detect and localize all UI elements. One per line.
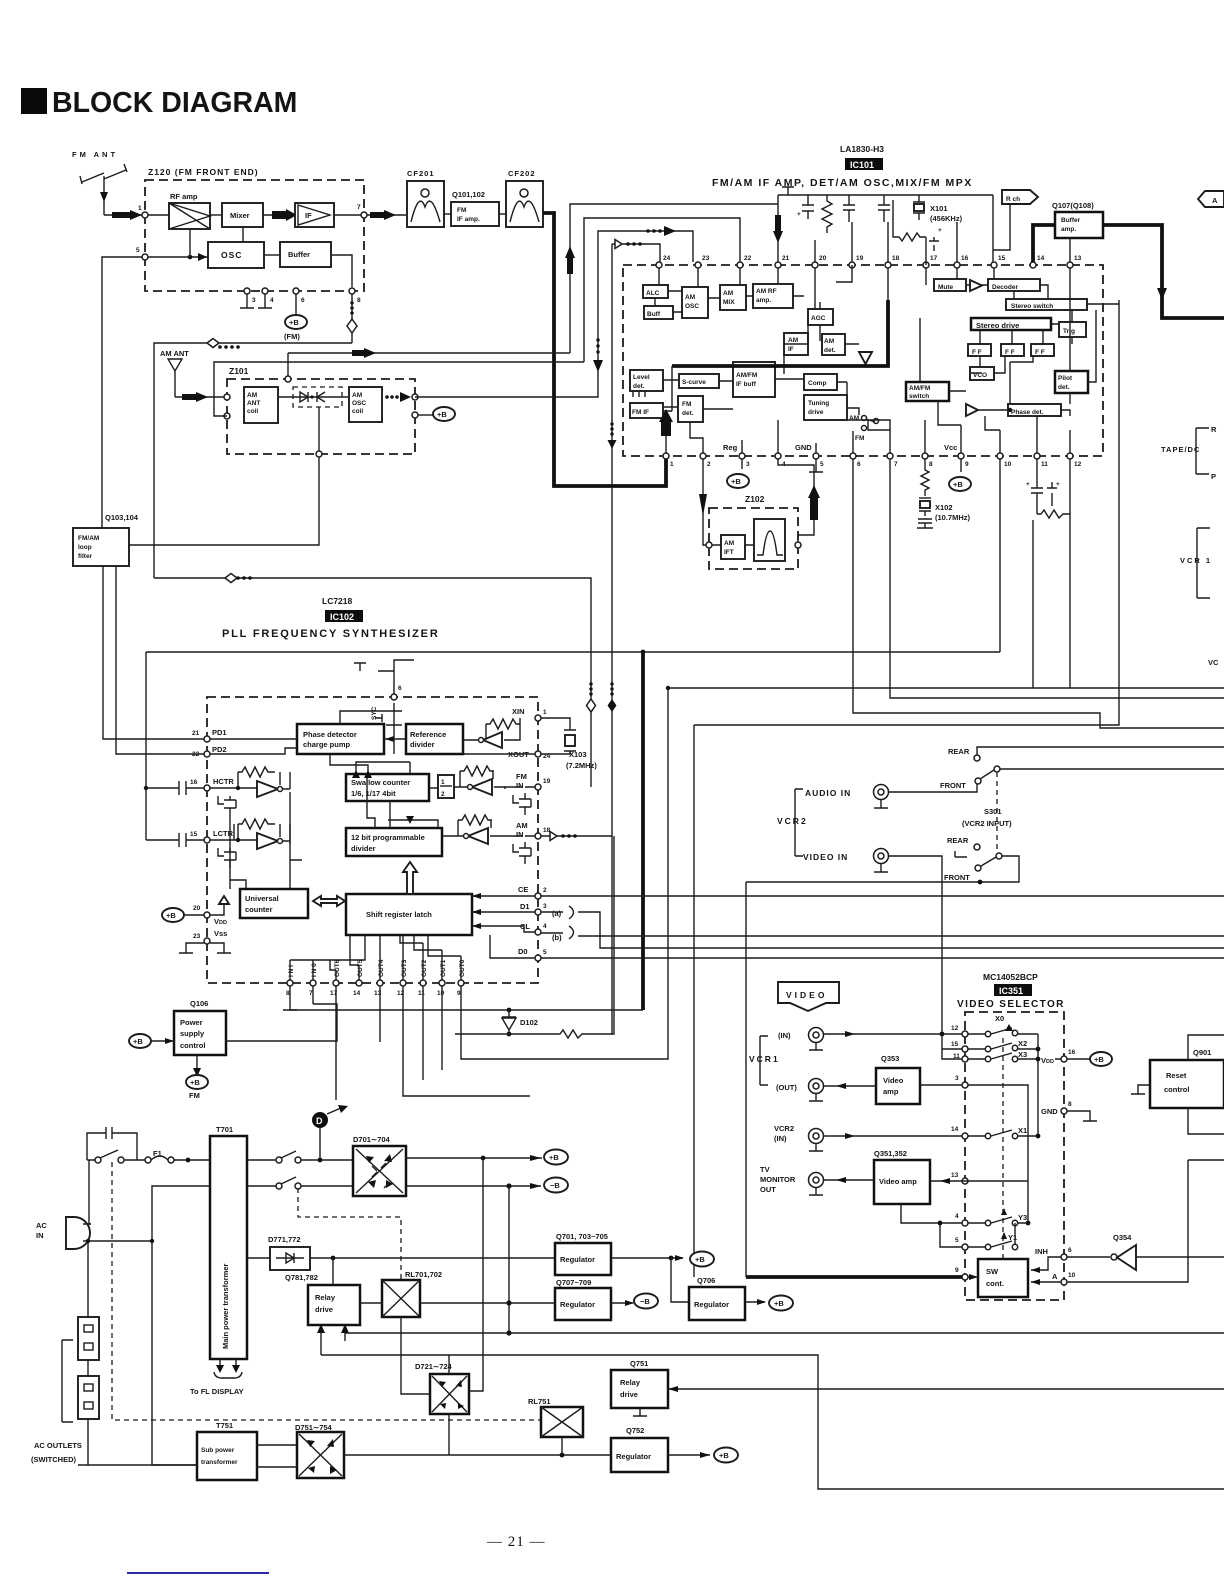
- svg-text:+: +: [1056, 481, 1060, 488]
- HCTR mosfet: [218, 796, 236, 816]
- mixer: [222, 203, 263, 227]
- svg-text:+: +: [1026, 481, 1030, 488]
- svg-text:6: 6: [1068, 1247, 1072, 1254]
- wire Z120 pin5 to loop filter: [102, 257, 142, 528]
- svg-text:X1: X1: [1018, 1126, 1027, 1135]
- svg-text:LC7218: LC7218: [322, 596, 353, 606]
- +B out of Q706: [745, 1301, 765, 1303]
- X0 switch: [968, 1014, 1038, 1037]
- svg-text:AM: AM: [352, 392, 362, 399]
- svg-text:MONITOR: MONITOR: [760, 1175, 796, 1184]
- pin12 wire down to bus: [1033, 459, 1070, 688]
- svg-text:AM ANT: AM ANT: [160, 349, 189, 358]
- wire buffer out to pin8: [331, 255, 352, 287]
- Vss pin23 with grounds: [204, 938, 210, 944]
- wire mixer to IF with arrow: [263, 214, 295, 216]
- svg-text:Reset: Reset: [1166, 1071, 1187, 1080]
- thick FM IF bus: [672, 300, 888, 366]
- Decoder: [988, 279, 1040, 291]
- IC351 dashed outline: [965, 1012, 1064, 1300]
- svg-text:IN: IN: [516, 781, 524, 790]
- pin11: [962, 1056, 968, 1062]
- svg-text:X2: X2: [1018, 1039, 1027, 1048]
- 12bit programmable divider: [346, 828, 442, 856]
- svg-text:VIDEO SELECTOR: VIDEO SELECTOR: [957, 999, 1065, 1010]
- svg-text:F F: F F: [972, 349, 982, 356]
- svg-text:VIDEO: VIDEO: [786, 990, 827, 1000]
- svg-text:Universal: Universal: [245, 894, 279, 903]
- svg-text:9: 9: [955, 1267, 959, 1274]
- CF201 ceramic filter: [407, 169, 444, 227]
- AC power switch: [87, 1150, 145, 1163]
- svg-text:IF amp.: IF amp.: [457, 216, 480, 223]
- svg-text:drive: drive: [808, 409, 824, 416]
- AM OSC coil: [349, 387, 382, 422]
- CE bus line: [541, 895, 1224, 897]
- OUT0 route: [461, 688, 668, 1059]
- audio REAR terminal: [948, 747, 1224, 761]
- svg-text:Relay: Relay: [315, 1293, 336, 1302]
- svg-text:16: 16: [1068, 1049, 1076, 1056]
- svg-text:8: 8: [357, 297, 361, 304]
- decorative blue rule: [127, 1572, 269, 1574]
- AM IN pin18: [535, 833, 541, 839]
- svg-text:VC: VC: [1208, 658, 1219, 667]
- svg-text:AGC: AGC: [811, 315, 826, 322]
- svg-text:6: 6: [301, 297, 305, 304]
- svg-text:ANT: ANT: [247, 400, 260, 407]
- svg-text:OUT6: OUT6: [334, 959, 341, 977]
- svg-text:VIDEO IN: VIDEO IN: [803, 852, 848, 862]
- D0 bus line: [541, 957, 1224, 959]
- svg-text:Video: Video: [883, 1076, 904, 1085]
- X2 switch: [968, 1039, 1038, 1052]
- +B VDD pin20: [162, 908, 204, 922]
- RL701 702 relay: [382, 1270, 442, 1317]
- svg-text:3: 3: [543, 903, 547, 910]
- svg-text:counter: counter: [245, 905, 273, 914]
- XIN inverter resistor: [463, 718, 535, 754]
- R ch flag: [993, 190, 1038, 250]
- video FRONT contact and switch: [746, 853, 1019, 884]
- svg-text:+B: +B: [731, 477, 741, 486]
- svg-text:+B: +B: [695, 1255, 705, 1264]
- svg-text:11: 11: [418, 990, 425, 997]
- -B rail down thick: [508, 1186, 510, 1333]
- VCR1 IN jack: [778, 1028, 965, 1051]
- +B (FM) supply: [284, 294, 307, 341]
- pin5: [962, 1244, 968, 1250]
- svg-text:Regulator: Regulator: [560, 1255, 595, 1264]
- svg-text:−B: −B: [640, 1297, 650, 1306]
- Q354 inverter: [1067, 1233, 1224, 1270]
- AC IN plug: [36, 1217, 91, 1249]
- svg-text:4: 4: [955, 1213, 959, 1220]
- top pin row IC101: [656, 255, 1082, 268]
- svg-text:Mixer: Mixer: [230, 211, 250, 220]
- AM det: [822, 334, 845, 355]
- svg-text:Phase detector: Phase detector: [303, 730, 357, 739]
- bridge +B output: [406, 1157, 542, 1159]
- svg-text:FM: FM: [189, 1091, 200, 1100]
- svg-text:10: 10: [1068, 1272, 1076, 1279]
- svg-text:OUT5: OUT5: [357, 959, 364, 977]
- AM IN inverter: [442, 815, 505, 844]
- svg-text:cont.: cont.: [986, 1279, 1004, 1288]
- svg-text:A: A: [1052, 1272, 1058, 1281]
- svg-text:REAR: REAR: [947, 836, 969, 845]
- svg-text:11: 11: [1041, 461, 1048, 468]
- Z101 dashed box: [227, 379, 415, 454]
- svg-text:Q707~709: Q707~709: [556, 1278, 591, 1287]
- FM det: [678, 396, 703, 422]
- svg-text:BLOCK DIAGRAM: BLOCK DIAGRAM: [52, 87, 297, 119]
- svg-text:T751: T751: [216, 1421, 233, 1430]
- Z102 dashed box: [709, 508, 798, 569]
- svg-text:T701: T701: [216, 1125, 233, 1134]
- svg-text:Buff: Buff: [647, 311, 661, 318]
- AM det down triangle: [859, 352, 872, 364]
- X1 switch: [968, 1126, 1040, 1139]
- wire pin8 net to left rail: [154, 343, 352, 578]
- svg-text:AM: AM: [849, 415, 859, 422]
- svg-text:CF202: CF202: [508, 169, 536, 178]
- svg-text:Pilot: Pilot: [1058, 375, 1073, 382]
- OUT lines down: [313, 986, 530, 1100]
- svg-text:13: 13: [951, 1172, 959, 1179]
- svg-text:22: 22: [744, 255, 752, 262]
- svg-text:GND: GND: [795, 443, 812, 452]
- pin13 stub: [1069, 238, 1071, 262]
- svg-text:12: 12: [951, 1025, 959, 1032]
- svg-text:Video amp: Video amp: [879, 1177, 917, 1186]
- svg-text:charge pump: charge pump: [303, 740, 351, 749]
- svg-text:filter: filter: [78, 553, 93, 560]
- A flag right edge: [1198, 191, 1224, 207]
- S301 label: [962, 807, 1012, 828]
- Q901 reset control: [1150, 1048, 1224, 1108]
- svg-text:D751∼754: D751∼754: [295, 1423, 333, 1432]
- svg-text:4: 4: [270, 297, 274, 304]
- svg-text:amp.: amp.: [1061, 226, 1076, 233]
- dashed standby feed: [112, 1162, 541, 1420]
- svg-text:divider: divider: [351, 844, 376, 853]
- svg-text:+B: +B: [289, 318, 299, 327]
- Q706 regulator: [689, 1276, 745, 1320]
- svg-text:+B: +B: [774, 1299, 784, 1308]
- svg-text:Sub power: Sub power: [201, 1447, 235, 1454]
- AM IFT: [721, 535, 745, 559]
- pin3: [962, 1082, 968, 1088]
- svg-text:20: 20: [819, 255, 827, 262]
- svg-text:RL701,702: RL701,702: [405, 1270, 442, 1279]
- svg-text:INH: INH: [1035, 1247, 1048, 1256]
- universal counter: [240, 889, 308, 918]
- svg-text:IN: IN: [36, 1231, 44, 1240]
- svg-text:det.: det.: [633, 383, 645, 390]
- svg-text:HCTR: HCTR: [213, 777, 234, 786]
- svg-text:+B: +B: [437, 410, 447, 419]
- svg-text:supply: supply: [180, 1029, 205, 1038]
- svg-text:GND: GND: [1041, 1107, 1058, 1116]
- Buff: [644, 306, 673, 319]
- pin9: [962, 1274, 968, 1280]
- svg-text:OUT2: OUT2: [421, 959, 428, 977]
- long line pin10 to PLL area: [999, 459, 1001, 652]
- AM ANT coil: [244, 387, 278, 423]
- AM IN wire to LO rail: [541, 835, 612, 837]
- A pin10: [1031, 1272, 1076, 1285]
- Pilot det: [1055, 371, 1088, 393]
- svg-text:OUT: OUT: [760, 1185, 776, 1194]
- CL pin4: [535, 929, 541, 935]
- Z101 right pins: [412, 394, 418, 400]
- title block: [21, 87, 297, 119]
- svg-text:S-curve: S-curve: [682, 379, 706, 386]
- svg-text:(VCR2 INPUT): (VCR2 INPUT): [962, 819, 1012, 828]
- svg-text:Level: Level: [633, 374, 650, 381]
- svg-text:(IN): (IN): [778, 1031, 791, 1040]
- svg-text:3: 3: [746, 461, 750, 468]
- AC outlet 2: [78, 1376, 99, 1419]
- svg-text:AC OUTLETS: AC OUTLETS: [34, 1441, 82, 1450]
- IC101 internal: ALC: [643, 285, 668, 298]
- D751 output line: [344, 1454, 614, 1456]
- svg-text:D1: D1: [520, 902, 530, 911]
- svg-text:Q103,104: Q103,104: [105, 513, 139, 522]
- GND pin8: [1041, 1101, 1097, 1121]
- Q353 video amp: [876, 1054, 920, 1104]
- svg-text:+B: +B: [190, 1078, 200, 1087]
- svg-text:15: 15: [190, 831, 198, 838]
- swallow counter: [346, 774, 429, 801]
- LCTR inverter and resistor: [210, 819, 290, 849]
- VIDEO IN jack: [803, 849, 942, 1035]
- svg-text:coil: coil: [352, 408, 363, 415]
- stereo line y725: [694, 300, 1119, 725]
- D102 diode: [502, 1008, 538, 1037]
- shift register latch: [346, 894, 472, 935]
- svg-text:R ch: R ch: [1006, 196, 1020, 203]
- svg-text:AM/FM: AM/FM: [909, 385, 930, 392]
- Q751 relay drive: [611, 1359, 668, 1408]
- svg-text:16: 16: [961, 255, 969, 262]
- svg-text:Regulator: Regulator: [616, 1452, 651, 1461]
- bridge bottom to line: [448, 1414, 450, 1455]
- pin15: [962, 1046, 968, 1052]
- svg-text:3: 3: [955, 1075, 959, 1082]
- svg-text:5: 5: [136, 247, 140, 254]
- svg-text:+: +: [797, 211, 801, 218]
- counter feed wires: [230, 792, 302, 889]
- svg-text:control: control: [1164, 1085, 1189, 1094]
- OSC: [208, 242, 264, 268]
- ground at reset control: [1131, 1085, 1150, 1094]
- svg-text:Q353: Q353: [881, 1054, 899, 1063]
- wire pin1 to RF amp: [148, 214, 169, 216]
- fat arrow universal counter shift register: [313, 896, 345, 906]
- svg-text:AM: AM: [685, 294, 695, 301]
- +B at pin9: [949, 459, 971, 491]
- svg-text:— 21 —: — 21 —: [486, 1534, 546, 1550]
- FF 2: [1001, 344, 1024, 356]
- AM IN mosfet: [513, 836, 535, 864]
- svg-text:Q101,102: Q101,102: [452, 190, 485, 199]
- svg-text:15: 15: [998, 255, 1006, 262]
- Y3 switch: [968, 1208, 1030, 1226]
- divider chain wires: [330, 754, 455, 828]
- internal wires IC101 left cluster: [633, 265, 926, 409]
- svg-text:Z120 (FM FRONT END): Z120 (FM FRONT END): [148, 167, 259, 177]
- +B out of Q701: [611, 1257, 683, 1259]
- bridge top to line: [448, 1355, 450, 1374]
- resistor on rail: [822, 195, 832, 233]
- Q106 out to PLL: [226, 1004, 337, 1041]
- svg-text:1: 1: [670, 461, 674, 468]
- svg-text:Q901: Q901: [1193, 1048, 1211, 1057]
- FM osc sample rail to PLL: [154, 578, 591, 787]
- svg-text:X102: X102: [935, 503, 953, 512]
- VCR1 bracket: [749, 1036, 780, 1085]
- AM IF: [784, 333, 808, 355]
- pin13: [962, 1178, 968, 1184]
- wire RF amp bias: [189, 229, 191, 257]
- svg-text:4: 4: [543, 923, 547, 930]
- Q701 703-705 regulator: [555, 1232, 611, 1275]
- pin8 connector chain: [351, 294, 353, 343]
- To FL DISPLAY: [190, 1359, 244, 1396]
- VIDEO flag: [778, 982, 839, 1011]
- svg-text:Decoder: Decoder: [992, 284, 1018, 291]
- FM IN mosfet: [513, 787, 535, 815]
- svg-text:19: 19: [543, 778, 551, 785]
- svg-text:8: 8: [1068, 1101, 1072, 1108]
- svg-text:+: +: [938, 227, 942, 234]
- pin17 RC network: [893, 200, 926, 265]
- svg-text:Main power transformer: Main power transformer: [221, 1263, 230, 1349]
- D102 top line: [290, 1009, 643, 1011]
- thick AM det out down: [641, 652, 645, 1010]
- D751-754 bridge: [295, 1423, 344, 1478]
- relay drive sense arrows: [321, 1333, 345, 1355]
- svg-text:1: 1: [543, 709, 547, 716]
- svg-text:Power: Power: [180, 1018, 203, 1027]
- +B at pin3: [727, 459, 749, 488]
- bridge left wire: [401, 1317, 430, 1394]
- wire CF201 to FM IF amp: [444, 213, 451, 215]
- AM ant wire to IC101 pin22: [584, 218, 740, 362]
- S-curve: [679, 374, 719, 388]
- svg-text:(a): (a): [552, 909, 562, 918]
- svg-text:SW: SW: [986, 1267, 999, 1276]
- Z101 feed loop wires: [214, 353, 584, 416]
- pump top to SYC: [340, 711, 394, 754]
- Y1 switch: [968, 1223, 1018, 1250]
- svg-text:FM IF: FM IF: [632, 409, 649, 416]
- svg-text:OUT1: OUT1: [440, 959, 447, 977]
- svg-text:Reference: Reference: [410, 730, 446, 739]
- svg-text:AUDIO IN: AUDIO IN: [805, 788, 851, 798]
- IF filter curve box: [754, 519, 785, 561]
- svg-text:Q701, 703~705: Q701, 703~705: [556, 1232, 608, 1241]
- svg-text:19: 19: [856, 255, 864, 262]
- IF block: [295, 203, 334, 227]
- svg-text:AC: AC: [36, 1221, 47, 1230]
- RL751 relay: [528, 1397, 583, 1437]
- A line to reset box: [1067, 1160, 1188, 1282]
- svg-text:Phase det.: Phase det.: [1011, 409, 1044, 416]
- Z101 bottom pin wire to loop filter: [316, 451, 322, 457]
- svg-text:Y1: Y1: [1008, 1233, 1017, 1242]
- svg-text:X0: X0: [995, 1014, 1004, 1023]
- svg-text:AM RF: AM RF: [756, 288, 777, 295]
- SYC transistor: [371, 703, 402, 733]
- Z120 dashed box: [145, 180, 364, 291]
- svg-text:drive: drive: [620, 1390, 638, 1399]
- Q781 782 relay drive: [285, 1273, 360, 1325]
- svg-text:PD2: PD2: [212, 745, 227, 754]
- outlets bracket: [62, 1340, 73, 1422]
- pin 6 top: [391, 694, 397, 700]
- Tuning drive: [804, 395, 847, 420]
- Phase det: [1008, 404, 1061, 416]
- svg-text:15: 15: [951, 1041, 959, 1048]
- svg-text:F F: F F: [1035, 349, 1045, 356]
- svg-text:MC14052BCP: MC14052BCP: [983, 972, 1038, 982]
- Trig: [1059, 322, 1086, 337]
- ground on rail: [782, 187, 794, 195]
- svg-text:3: 3: [252, 297, 256, 304]
- Q106 power supply control: [174, 999, 226, 1055]
- +B rail down to D721 bridge: [469, 1158, 483, 1391]
- svg-text:drive: drive: [315, 1305, 333, 1314]
- svg-text:FRONT: FRONT: [940, 781, 966, 790]
- svg-text:switch: switch: [909, 393, 929, 400]
- svg-text:IFT: IFT: [724, 549, 734, 556]
- Mute: [934, 279, 966, 291]
- wire antenna to pin1: [104, 214, 143, 216]
- pin 1: [142, 212, 148, 218]
- svg-text:RF amp: RF amp: [170, 192, 198, 201]
- svg-text:21: 21: [782, 255, 790, 262]
- svg-text:FM ANT: FM ANT: [72, 150, 118, 159]
- phase det buffer triangle: [966, 404, 978, 416]
- svg-text:transformer: transformer: [201, 1459, 238, 1466]
- svg-text:IN: IN: [516, 830, 524, 839]
- svg-text:+B: +B: [549, 1153, 559, 1162]
- svg-text:IC102: IC102: [330, 612, 354, 622]
- svg-text:OSC: OSC: [352, 400, 366, 407]
- AM osc wire Z101 to IC101 pin23: [415, 231, 693, 397]
- svg-text:5: 5: [955, 1237, 959, 1244]
- reset control bottom wire: [1188, 1108, 1224, 1134]
- CL bus line: [541, 933, 1224, 936]
- svg-text:Shift register latch: Shift register latch: [366, 910, 432, 919]
- svg-text:OSC: OSC: [221, 250, 242, 260]
- svg-text:8: 8: [929, 461, 933, 468]
- svg-text:AM: AM: [723, 290, 733, 297]
- svg-text:Trig: Trig: [1063, 328, 1075, 335]
- latch output wires to bottom pins: [290, 935, 461, 980]
- svg-text:6: 6: [398, 685, 402, 692]
- svg-text:AM: AM: [788, 337, 798, 344]
- svg-text:(OUT): (OUT): [776, 1083, 797, 1092]
- svg-text:I N I: I N I: [288, 965, 295, 977]
- svg-text:VCR 1: VCR 1: [1180, 556, 1212, 565]
- FF 3: [1031, 344, 1054, 356]
- svg-text:Stereo switch: Stereo switch: [1011, 303, 1053, 310]
- bridge -B output thick: [406, 1185, 541, 1187]
